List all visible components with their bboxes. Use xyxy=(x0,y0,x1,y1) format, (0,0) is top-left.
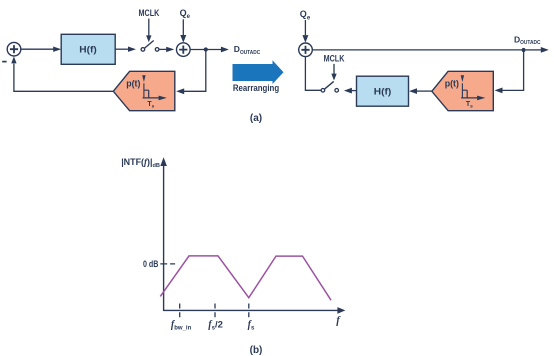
summing junction S2 xyxy=(177,43,191,57)
wire SW2 to S3 xyxy=(305,57,321,90)
DAC block P2 p(t) xyxy=(432,71,494,110)
y axis xyxy=(160,157,167,311)
summing junction S3 xyxy=(299,43,313,57)
svg-text:DOUTADC: DOUTADC xyxy=(514,34,540,46)
tick f_bw_in xyxy=(179,304,181,318)
wire P2 to H2 xyxy=(409,88,432,94)
output arrow (right) xyxy=(526,47,549,53)
wire S3 to output node xyxy=(312,49,521,51)
wire S2 to output xyxy=(190,47,229,53)
svg-text:Qe: Qe xyxy=(300,9,311,21)
wire S1 to H1 xyxy=(21,47,61,52)
svg-text:0 dB: 0 dB xyxy=(143,259,159,269)
svg-text:MCLK: MCLK xyxy=(324,54,345,64)
svg-text:f: f xyxy=(336,315,341,326)
svg-text:fs/2: fs/2 xyxy=(208,319,223,331)
switch SW2 xyxy=(321,81,338,92)
NTF curve xyxy=(160,256,331,300)
svg-text:H(f): H(f) xyxy=(374,87,392,97)
MCLK control arrow (left) xyxy=(146,19,151,43)
svg-text:(b): (b) xyxy=(250,345,263,356)
junction node dot (left) xyxy=(204,47,208,51)
feedback wire P1 to S1 xyxy=(11,56,113,91)
svg-text:p(t): p(t) xyxy=(126,79,140,89)
Qe input arrow (right) xyxy=(302,20,308,43)
svg-text:DOUTADC: DOUTADC xyxy=(234,44,260,56)
0 dB dashed level marks xyxy=(160,263,175,265)
DAC block P1 p(t) xyxy=(113,71,175,110)
svg-text:Rearranging: Rearranging xyxy=(233,83,279,93)
block H1 H(f) xyxy=(61,34,115,64)
svg-text:p(t): p(t) xyxy=(445,79,459,89)
feedback wire node to P2 xyxy=(495,50,524,93)
wire H1 to switch SW1 xyxy=(115,47,136,52)
wire H2 to switch SW2 xyxy=(344,88,357,94)
tick f_s/2 xyxy=(214,304,216,318)
svg-text:Qe: Qe xyxy=(180,8,191,20)
x axis xyxy=(163,307,345,314)
minus sign at S1 feedback input xyxy=(2,61,6,63)
Qe input arrow (left) xyxy=(180,19,186,42)
feedback wire from node down to P1 xyxy=(176,50,206,95)
svg-text:|NTF(f)|: |NTF(f)| xyxy=(121,157,152,167)
svg-text:fbw_in: fbw_in xyxy=(171,319,192,331)
rearranging arrow xyxy=(233,60,284,84)
switch SW1 xyxy=(141,41,159,52)
summing junction S1 xyxy=(7,42,21,56)
svg-text:(a): (a) xyxy=(250,113,262,124)
svg-text:fs: fs xyxy=(248,319,255,331)
MCLK control arrow (right) xyxy=(331,64,336,81)
block H2 H(f) xyxy=(357,76,409,106)
svg-text:dB: dB xyxy=(153,163,160,169)
svg-text:MCLK: MCLK xyxy=(139,8,160,18)
svg-text:H(f): H(f) xyxy=(79,44,97,54)
tick f_s xyxy=(248,304,250,318)
wire SW1 to S2 xyxy=(159,47,174,52)
junction node dot (right) xyxy=(522,48,526,52)
